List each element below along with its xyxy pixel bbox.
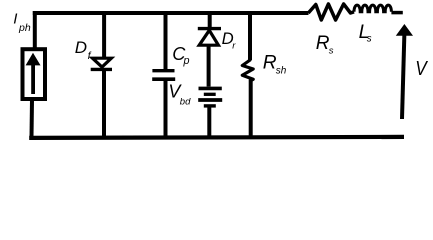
svg-text:R: R bbox=[316, 33, 330, 54]
svg-text:s: s bbox=[367, 33, 372, 44]
svg-text:V: V bbox=[415, 58, 428, 80]
svg-text:I: I bbox=[13, 11, 17, 28]
svg-text:f: f bbox=[88, 50, 92, 62]
svg-text:bd: bd bbox=[180, 96, 191, 107]
svg-text:p: p bbox=[183, 55, 190, 67]
svg-text:ph: ph bbox=[18, 22, 31, 34]
svg-text:sh: sh bbox=[276, 66, 287, 77]
svg-text:R: R bbox=[263, 53, 277, 74]
svg-text:s: s bbox=[329, 46, 334, 57]
svg-text:D: D bbox=[75, 38, 87, 57]
svg-text:r: r bbox=[232, 41, 236, 52]
